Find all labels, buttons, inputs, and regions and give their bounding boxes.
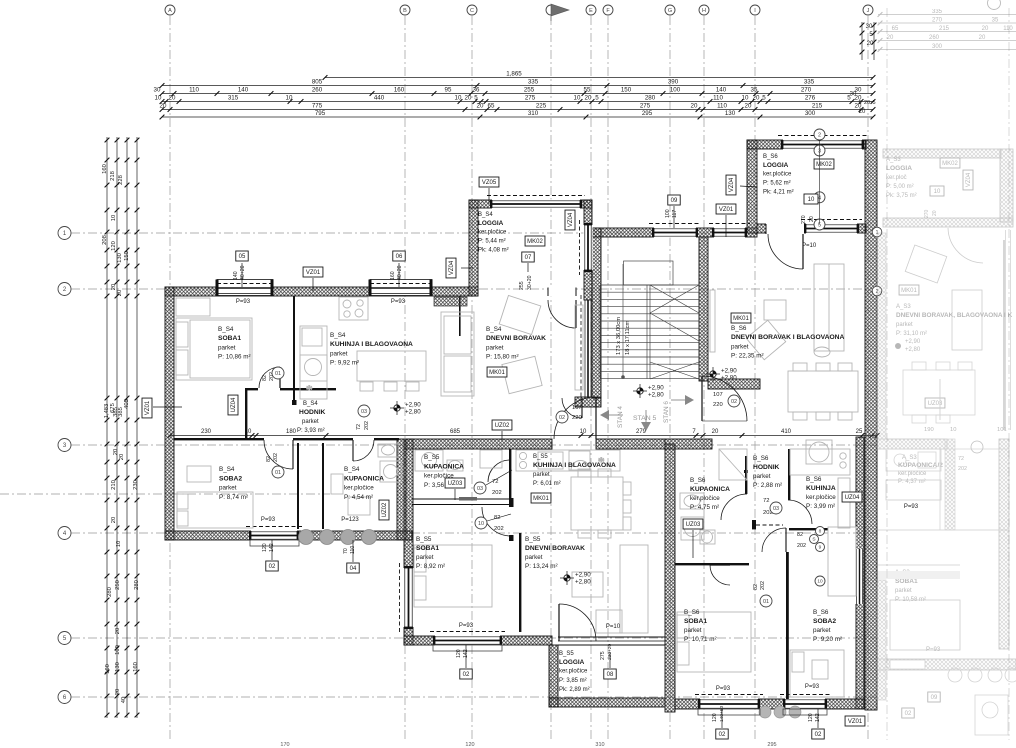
svg-text:+2,80: +2,80 [648,392,664,399]
svg-text:P: 5,62 m²: P: 5,62 m² [763,181,791,187]
svg-text:ker.pločice: ker.pločice [559,669,588,675]
parapet hatch block [434,297,467,306]
svg-text:parket: parket [731,343,749,350]
svg-text:VZ05: VZ05 [482,180,497,186]
faded loggia walls [883,149,1001,158]
svg-text:08: 08 [607,672,614,678]
svg-text:82: 82 [266,456,272,462]
faded west wall [877,233,886,439]
door B_S4 soba2 [264,440,293,469]
svg-text:S: S [812,537,815,543]
svg-text:MK02: MK02 [816,162,832,168]
svg-text:20: 20 [809,216,815,222]
wall B_S5 south [404,636,552,645]
svg-text:202: 202 [494,526,504,532]
svg-text:P: 4,75 m²: P: 4,75 m² [690,504,719,511]
svg-text:P: 22,35 m²: P: 22,35 m² [731,353,764,360]
partition B_S6 kitchen west [788,449,790,500]
svg-text:10: 10 [808,197,815,203]
furniture B_S5 coffee table [572,572,603,597]
svg-text:8: 8 [819,529,822,535]
window VZ05 in horizontal wall [492,199,580,208]
svg-text:120: 120 [262,543,268,552]
window 02 in horizontal wall [435,635,500,645]
svg-text:20: 20 [979,35,986,41]
svg-text:LOGGIA: LOGGIA [886,165,912,172]
window 02b in horizontal wall [785,698,825,709]
svg-text:Pk: 2,89 m²: Pk: 2,89 m² [559,687,590,693]
svg-text:parket: parket [895,588,912,594]
wall B_S4 north [165,287,478,296]
glass wall B_S5 dnevni/loggia [558,636,665,638]
svg-text:HODNIK: HODNIK [299,409,326,416]
furniture B_S4 dnevni armchairs [499,295,541,334]
svg-text:B: B [403,8,407,14]
svg-text:09: 09 [671,198,678,204]
svg-text:255: 255 [519,281,525,290]
svg-text:100: 100 [670,87,681,94]
wall landing south [708,379,760,389]
svg-text:20: 20 [111,517,117,523]
door B_S6 kitchen [788,500,812,524]
svg-text:335: 335 [528,79,539,86]
partition kitchen/dnevni B_S4 [459,296,461,336]
svg-text:parket: parket [219,485,237,492]
window 07w in vertical wall [583,225,592,270]
svg-text:1,865: 1,865 [506,71,522,78]
svg-text:20: 20 [864,100,870,106]
svg-text:280: 280 [134,580,140,590]
svg-text:P=93: P=93 [805,684,820,690]
svg-text:B_S4: B_S4 [303,401,318,407]
wall B_S4 south [165,531,412,540]
svg-text:B_S6: B_S6 [731,325,747,332]
svg-text:UZ03: UZ03 [928,401,943,407]
furniture B_S4 dnevni sofa [441,312,474,396]
svg-text:270: 270 [932,18,943,24]
svg-text:5: 5 [872,100,875,106]
svg-text:MK01: MK01 [733,316,749,322]
svg-text:A_S3: A_S3 [886,157,901,163]
svg-text:20: 20 [745,103,752,110]
grid axis circles top [165,5,175,15]
svg-text:202: 202 [364,421,370,430]
wall B_S4 loggia east [584,200,592,300]
svg-text:20: 20 [477,103,484,110]
door B_S6 entrance [702,376,747,421]
partition hodnik B_S4 [245,388,247,440]
svg-text:B_S4: B_S4 [478,212,493,218]
svg-text:B_S6: B_S6 [813,609,829,616]
furniture B_S4 kitchen [300,326,327,399]
svg-text:A_S3: A_S3 [896,304,911,310]
level marker [394,405,400,411]
svg-text:160: 160 [394,87,405,94]
svg-text:215: 215 [939,26,950,32]
door B_S5 loggia [559,604,596,641]
svg-text:10: 10 [286,95,293,102]
svg-text:VZ01: VZ01 [306,270,321,276]
svg-text:P=93: P=93 [459,623,474,629]
svg-text:110: 110 [189,87,199,94]
svg-text:202: 202 [760,581,766,590]
svg-text:MK01: MK01 [533,496,549,502]
svg-text:20: 20 [465,95,472,102]
svg-text:230: 230 [133,480,139,490]
svg-text:440: 440 [374,95,385,102]
horizontal grid lines [71,232,877,234]
svg-text:P: 9,92 m²: P: 9,92 m² [330,360,359,367]
orientation flag [600,410,609,420]
svg-text:P: 13,24 m²: P: 13,24 m² [525,563,558,570]
svg-text:275: 275 [600,651,606,660]
partition SOBA1/KUHINJA B_S4 [293,296,295,400]
furniture B_S4 dining table [357,351,426,381]
door B_S5 entrance [554,397,596,439]
wall B_S5 west [404,439,413,645]
svg-text:10: 10 [580,429,587,435]
door B_S5 soba1 corridor [482,507,511,536]
svg-text:P: 5,44 m²: P: 5,44 m² [478,239,506,245]
faded adjacent unit [877,9,1016,735]
svg-text:82: 82 [797,532,803,538]
furniture B_S4 kupaonica [331,474,343,494]
axis J vertical dimension chain [861,22,863,60]
svg-text:20: 20 [887,35,894,41]
svg-text:parket: parket [896,322,913,328]
svg-text:B_S6: B_S6 [806,476,822,483]
svg-text:10: 10 [817,579,823,585]
svg-text:06: 06 [396,254,403,260]
svg-text:02: 02 [269,564,276,570]
svg-text:+2,90: +2,90 [721,368,737,375]
svg-text:230+20: 230+20 [607,644,613,660]
raised window 06 [370,280,432,296]
svg-text:150: 150 [621,87,632,94]
svg-text:173 x 36,00cm: 173 x 36,00cm [616,317,622,355]
svg-text:G: G [668,8,672,14]
svg-text:335: 335 [932,9,943,15]
svg-text:280: 280 [645,95,656,102]
svg-text:DNEVNI BORAVAK: DNEVNI BORAVAK [525,545,585,552]
svg-text:P: 9,20 m²: P: 9,20 m² [813,636,842,643]
svg-text:04: 04 [350,566,357,572]
svg-text:parket: parket [533,472,550,478]
svg-text:KUPAONICA: KUPAONICA [424,463,464,470]
raised window 05 [217,280,273,296]
svg-text:UZ03: UZ03 [448,481,463,487]
svg-text:280: 280 [107,587,113,597]
svg-text:30+20: 30+20 [527,275,533,290]
svg-text:+2,90: +2,90 [905,339,921,345]
wall B_S5 north east part [596,439,665,449]
north flag at axis D [551,4,569,21]
furniture B_S5 soba1 bed [414,545,492,607]
svg-text:SOBA1: SOBA1 [895,578,918,585]
partition B_S5 kupaonica/kuhinja [509,449,511,498]
svg-text:SOBA1: SOBA1 [218,335,241,342]
wall B_S6 east [856,437,864,709]
B_S6 loggia chain [814,129,825,140]
svg-text:B_S6: B_S6 [763,154,778,160]
svg-text:142: 142 [269,543,275,552]
faded kupaonica [925,398,945,408]
svg-text:+2,90: +2,90 [648,385,664,392]
wall B_S6 south [675,699,865,709]
svg-text:107: 107 [572,405,582,411]
window strip B_S6 soba2 east [855,549,863,604]
svg-text:120: 120 [808,713,814,722]
furniture B_S6 sofa armchairs [764,300,786,320]
svg-text:DNEVNI BORAVAK: DNEVNI BORAVAK [486,335,546,342]
partition B_S6 soba1/soba2 [786,552,789,699]
svg-text:142: 142 [815,713,821,722]
left wall small labels [228,395,238,415]
svg-text:05: 05 [239,254,246,260]
svg-text:270: 270 [924,209,930,218]
svg-text:SOBA2: SOBA2 [219,475,242,482]
wall B_S6 north-west piece [665,439,712,449]
wall B_S5 loggia west [549,645,558,707]
svg-text:295: 295 [767,742,776,748]
faded grid verticals [886,8,888,740]
window sill boxes [250,540,299,546]
svg-text:J: J [867,8,870,14]
svg-text:255: 255 [524,87,535,94]
svg-text:MK02: MK02 [527,239,543,245]
svg-text:parket: parket [486,344,504,351]
window id boxes [236,251,248,261]
svg-text:KUHINJA: KUHINJA [806,485,836,492]
svg-text:parket: parket [525,554,543,561]
svg-text:ker.pločice: ker.pločice [806,494,836,501]
svg-text:09: 09 [931,695,938,701]
svg-text:parket: parket [813,627,831,634]
svg-text:270: 270 [801,87,812,94]
svg-text:SOBA1: SOBA1 [684,618,707,625]
svg-text:120: 120 [456,649,462,658]
svg-text:170: 170 [280,742,289,748]
svg-text:02: 02 [815,732,822,738]
svg-text:+2,80: +2,80 [575,579,591,586]
svg-text:20: 20 [867,41,874,47]
svg-text:VZ04: VZ04 [966,172,972,187]
furniture B_S4 tv board [575,305,583,390]
door B_S6 kupaonica [721,494,747,520]
svg-text:390: 390 [668,79,679,86]
svg-text:parket: parket [330,350,348,357]
svg-text:110: 110 [717,103,727,110]
svg-text:P=10: P=10 [606,624,621,630]
svg-text:parket: parket [218,344,236,351]
svg-text:B_S6: B_S6 [753,455,769,462]
svg-text:120: 120 [465,742,474,748]
svg-text:335: 335 [804,79,815,86]
svg-text:ker.pločice: ker.pločice [478,230,507,236]
svg-text:01: 01 [275,470,281,476]
planter circles at B_S4 south wall [299,530,314,545]
faded dining table [903,370,975,415]
svg-text:KUPAONICA: KUPAONICA [690,486,730,493]
svg-text:130: 130 [117,253,123,263]
svg-text:A: A [168,8,172,14]
svg-text:208: 208 [102,235,108,245]
svg-text:+2,80: +2,80 [905,347,921,353]
svg-text:220: 220 [572,415,582,421]
wall divider B_S5/B_S6 [665,444,675,712]
svg-text:STAN 6: STAN 6 [663,401,670,423]
svg-text:E: E [589,8,593,14]
svg-text:10: 10 [111,215,117,221]
svg-text:03: 03 [477,486,483,492]
svg-text:100: 100 [665,209,671,218]
svg-text:P=93: P=93 [391,299,406,305]
svg-text:405: 405 [124,399,130,409]
svg-text:65: 65 [892,26,899,32]
furniture B_S5 kupaonica [415,450,443,471]
planters below B_S6 south wall [759,706,771,718]
svg-text:180: 180 [286,429,297,435]
svg-text:+2,80: +2,80 [405,409,421,416]
svg-text:10: 10 [155,95,162,102]
svg-text:parket: parket [302,419,319,425]
svg-text:VZ04: VZ04 [568,212,574,227]
svg-text:P=93: P=93 [716,686,731,692]
furniture B_S6 soba2 closet [828,527,856,596]
svg-text:P: 10,71 m²: P: 10,71 m² [684,636,717,643]
svg-text:P: 8,92 m²: P: 8,92 m² [416,563,445,570]
faded kitchen counters [877,449,1016,682]
partition SOBA2/KUPAONICA B_S4 closet [297,443,299,529]
svg-text:+2,90: +2,90 [405,402,421,409]
svg-text:202: 202 [273,453,279,462]
svg-text:120: 120 [712,713,718,722]
orientation flag [641,422,651,431]
svg-text:20: 20 [859,109,866,115]
svg-text:MK01: MK01 [489,370,505,376]
wall stub B_S4 east entry [575,397,601,407]
svg-text:310: 310 [528,110,539,117]
furniture B_S4 soba2 bed [177,492,253,528]
wall B_S4 west [165,287,174,540]
svg-text:STAN 4: STAN 4 [617,406,624,428]
svg-text:20: 20 [160,103,167,110]
svg-text:P: 10,86 m²: P: 10,86 m² [218,354,251,361]
svg-text:P: 8,74 m²: P: 8,74 m² [219,494,248,501]
svg-text:C: C [470,8,474,14]
faded loggia door arc [948,228,983,263]
svg-text:30: 30 [154,87,161,94]
svg-text:P=93: P=93 [904,504,919,510]
svg-text:18 x 17,11cm: 18 x 17,11cm [625,320,631,355]
staircase [600,261,699,379]
svg-text:5: 5 [858,100,861,106]
wall B_S6 loggia south [757,224,866,233]
wall stairwell north [592,228,757,237]
faded window strips [1005,230,1007,430]
svg-text:82: 82 [753,584,759,590]
svg-text:ker.pločice: ker.pločice [690,495,720,502]
svg-text:10: 10 [478,521,484,527]
svg-text:410: 410 [781,429,792,435]
svg-text:B_S5: B_S5 [525,536,541,543]
furniture B_S6 upper dining table [788,371,858,412]
vertical grid lines [169,16,171,740]
door B_S4 entrance [562,398,582,418]
faded partitions and furniture [877,245,1009,650]
svg-text:95: 95 [445,87,452,94]
aux dash-dot line y494 [0,493,330,495]
svg-text:10: 10 [934,189,941,195]
wall B_S4 loggia west [469,200,478,296]
svg-text:20: 20 [712,429,719,435]
furniture B_S6 bookshelf [814,264,844,351]
window B_S4 east full-height [584,300,586,397]
furniture B_S6 soba2 bed [790,650,844,697]
svg-text:775: 775 [312,103,323,110]
svg-text:STAN 5: STAN 5 [633,415,657,422]
svg-text:250: 250 [115,580,121,590]
svg-text:110: 110 [350,546,356,554]
grid axis circles left [58,227,71,240]
furniture B_S6 soba1 bed [677,612,751,672]
svg-text:202: 202 [797,543,806,549]
svg-text:276: 276 [805,95,816,102]
door B_S6 soba1 [710,565,730,585]
svg-text:*: * [306,382,313,397]
svg-text:LOGGIA: LOGGIA [478,220,504,227]
svg-text:parket: parket [684,627,702,634]
svg-text:P=93: P=93 [236,299,251,305]
furniture B_S6 kitchen counter [790,449,850,475]
svg-text:2: 2 [818,132,821,138]
svg-text:142: 142 [463,649,469,658]
door B_S4 kupaonica [353,440,374,461]
svg-text:685: 685 [450,429,461,435]
svg-text:P=10: P=10 [802,243,817,249]
svg-text:P: 5,00 m²: P: 5,00 m² [886,184,914,190]
partition B_S6 kupaonica/hodnik [745,456,747,494]
svg-text:02: 02 [463,672,470,678]
svg-text:140: 140 [233,271,239,280]
svg-text:72: 72 [356,424,362,430]
svg-text:B_S5: B_S5 [559,651,574,657]
svg-text:160: 160 [102,164,108,174]
svg-text:65: 65 [488,103,495,110]
svg-text:parket: parket [753,473,771,480]
svg-text:02: 02 [719,732,726,738]
svg-text:20: 20 [119,454,125,460]
faded living room texts [899,285,919,295]
window VZ01 in horizontal wall [714,227,745,237]
svg-text:275: 275 [640,103,651,110]
svg-text:20: 20 [111,284,117,290]
svg-text:SOBA2: SOBA2 [813,618,836,625]
svg-text:215: 215 [812,103,823,110]
level marker [637,388,643,394]
svg-text:B_S4: B_S4 [219,466,235,473]
svg-text:160: 160 [390,271,396,280]
svg-text:UZ02: UZ02 [382,502,388,517]
furniture B_S4 soba1 bed [176,318,252,380]
partition B_S5 soba1/dnevni [519,533,521,632]
svg-text:5: 5 [595,95,599,102]
door B_S5 kupaonica [488,460,510,482]
svg-text:P: 4,54 m²: P: 4,54 m² [344,494,373,501]
orientation flag [685,395,694,405]
svg-text:82: 82 [262,375,268,381]
svg-text:P: 2,88 m²: P: 2,88 m² [753,482,782,489]
